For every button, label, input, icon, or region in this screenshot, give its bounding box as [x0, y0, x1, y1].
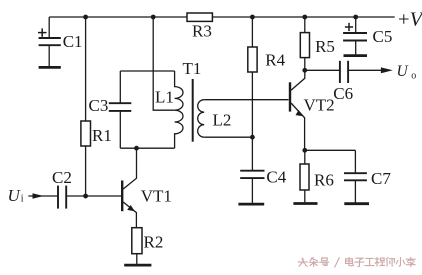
svg-text:R5: R5: [315, 37, 335, 56]
capacitor C2: [58, 186, 66, 209]
wire top supply rail: [49, 16, 395, 18]
svg-text:R6: R6: [314, 171, 334, 190]
ground (C7): [344, 202, 369, 205]
svg-text:C6: C6: [333, 84, 353, 103]
tank circuit rectangle top: [120, 70, 174, 72]
capacitor C1: [38, 17, 61, 66]
wire L2 bottom to R4/C4 branch: [204, 136, 252, 138]
node base VT1 / R1 / C2: [83, 194, 88, 199]
node rail/R5: [302, 15, 307, 20]
ground (C1): [39, 66, 61, 69]
svg-text:L1: L1: [155, 88, 174, 107]
svg-text:T1: T1: [183, 59, 202, 78]
resistor R3: [187, 13, 212, 21]
resistor R5: [300, 33, 309, 58]
node rail/C5: [353, 15, 358, 20]
node L2 bottom / R4 / C4: [250, 135, 255, 140]
node rail/R1: [83, 15, 88, 20]
wire R1 branch from rail: [85, 17, 87, 196]
resistor R4: [248, 47, 257, 72]
wire C6 to output: [348, 69, 385, 71]
svg-text:R3: R3: [192, 22, 212, 41]
wire R6 to ground: [304, 190, 306, 202]
transistor VT1: [122, 148, 136, 228]
svg-text:VT1: VT1: [141, 187, 172, 206]
svg-text:C7: C7: [371, 169, 391, 188]
wire R5 branch from rail: [304, 17, 306, 70]
input arrowhead: [33, 193, 44, 199]
wire VT2 collector junction to C6: [305, 69, 340, 71]
resistor R2: [132, 228, 142, 254]
svg-text:C4: C4: [266, 168, 286, 187]
inductor L1: [175, 71, 183, 148]
svg-text:U: U: [397, 63, 410, 80]
ground (C5): [344, 54, 368, 57]
transformer T1 core: [192, 79, 194, 142]
node rail/R4: [250, 15, 255, 20]
watermark 头条号/电子工程师小李 (hand-drawn strokes): [298, 258, 415, 268]
svg-text:VT2: VT2: [304, 96, 335, 115]
svg-text:i: i: [21, 193, 24, 204]
svg-text:C3: C3: [89, 96, 109, 115]
transistor VT2: [290, 70, 305, 150]
svg-text:R4: R4: [265, 51, 285, 70]
resistor R6: [300, 164, 309, 190]
svg-text:U: U: [8, 186, 22, 205]
svg-text:L2: L2: [213, 111, 232, 130]
wire emitter junction to R6 and C7: [305, 149, 356, 151]
capacitor C5: [343, 17, 367, 54]
svg-text:C2: C2: [52, 168, 72, 187]
tank left branch upper: [119, 71, 121, 103]
wire R2 to ground: [136, 254, 138, 264]
node tank bottom / VT1 collector: [134, 146, 139, 151]
ground (R6): [293, 202, 317, 205]
wire C2 to VT1 base: [66, 195, 121, 197]
tank circuit rectangle bottom: [120, 147, 174, 149]
svg-text:+V: +V: [398, 9, 422, 31]
ground (C4): [238, 203, 264, 206]
node VT2 collector / R5 / C6: [302, 68, 307, 73]
ground (R2): [124, 264, 151, 267]
capacitor C4: [240, 171, 264, 203]
inductor L2: [198, 100, 204, 138]
capacitor C3: [109, 103, 132, 111]
resistor R1: [81, 121, 91, 146]
slash: [335, 258, 340, 267]
wire R4 branch from rail down to C4: [251, 17, 253, 171]
capacitor C6: [340, 61, 348, 83]
svg-text:C5: C5: [373, 27, 393, 46]
capacitor C7: [344, 150, 367, 202]
wire tap from rail to L1 center tap: [153, 17, 174, 110]
wire input Ui line: [28, 195, 58, 197]
node VT2 emitter / R6 / C7: [302, 148, 307, 153]
wire L2 top to VT2 base: [204, 99, 288, 101]
svg-text:R1: R1: [92, 126, 112, 145]
node rail/tap: [151, 15, 156, 20]
svg-text:o: o: [411, 71, 416, 82]
tank left branch lower: [119, 111, 121, 148]
output arrowhead: [381, 67, 393, 73]
svg-text:C1: C1: [63, 32, 83, 51]
svg-text:R2: R2: [144, 233, 164, 252]
